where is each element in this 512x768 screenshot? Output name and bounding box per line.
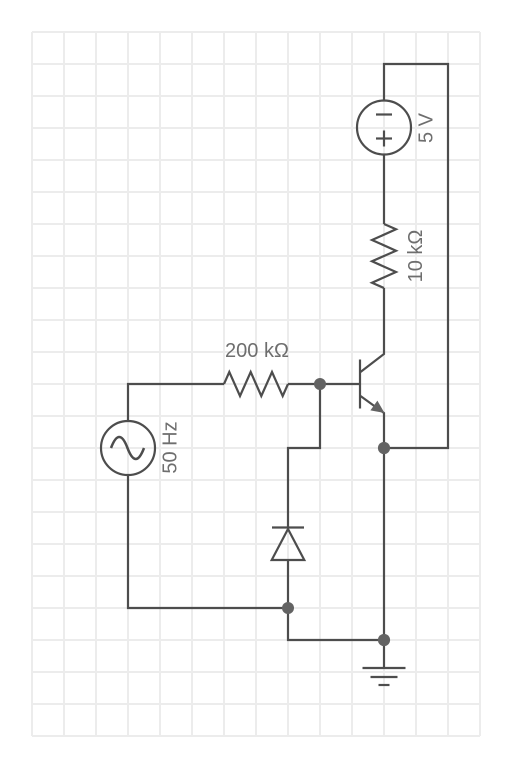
svg-text:5 V: 5 V — [416, 112, 438, 143]
svg-text:10 kΩ: 10 kΩ — [405, 230, 427, 283]
svg-text:200 kΩ: 200 kΩ — [225, 340, 289, 362]
svg-text:50 Hz: 50 Hz — [160, 421, 182, 473]
